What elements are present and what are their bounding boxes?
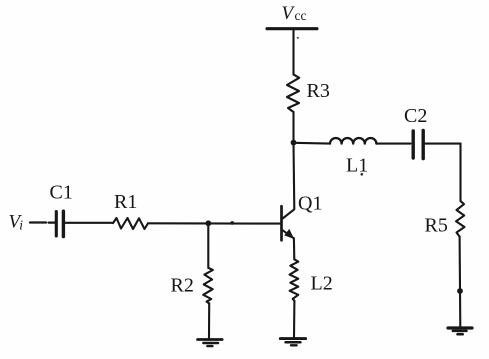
wire L1 to C2 xyxy=(376,143,410,145)
wire R5 to right ground xyxy=(459,237,462,327)
svg-text:R1: R1 xyxy=(114,191,137,213)
svg-text:i: i xyxy=(19,218,23,233)
wire junction down to R2 xyxy=(207,223,209,268)
label Vi xyxy=(9,212,24,233)
inductor L2 xyxy=(290,259,299,301)
wire collector node down to Q1 xyxy=(283,143,295,219)
wire C2 to right branch corner xyxy=(425,143,461,145)
label Vcc xyxy=(282,3,307,24)
svg-text:R5: R5 xyxy=(425,215,448,237)
capacitor C1 xyxy=(56,211,63,236)
ground left (under R2) xyxy=(198,340,223,347)
svg-text:Q1: Q1 xyxy=(298,193,322,215)
resistor R2 xyxy=(203,268,213,303)
svg-text:R3: R3 xyxy=(307,80,330,102)
node dot on right branch xyxy=(457,288,463,294)
node small dot on base wire xyxy=(230,221,234,225)
resistor R1 xyxy=(113,218,148,229)
ground middle (under L2) xyxy=(280,339,305,346)
svg-text:C1: C1 xyxy=(50,182,73,204)
input stub wire from Vi xyxy=(30,221,46,223)
svg-text:L1: L1 xyxy=(346,155,368,177)
resistor R3 xyxy=(287,75,299,113)
wire C1 to R1 xyxy=(65,222,113,224)
wire R2 to left ground xyxy=(208,303,210,338)
node base junction dot xyxy=(205,220,211,226)
wire Vcc bar to R3 top xyxy=(292,30,294,75)
wire right branch down to R5 xyxy=(459,144,461,201)
ground right xyxy=(448,328,472,334)
label L1 xyxy=(346,155,368,177)
capacitor C2 xyxy=(413,131,423,159)
svg-text:V: V xyxy=(282,3,296,24)
wire emitter down to L2 xyxy=(293,238,295,259)
svg-text:C2: C2 xyxy=(404,105,427,127)
wire R3 bottom to collector node xyxy=(292,112,294,143)
power rail Vcc bar xyxy=(267,27,317,30)
wire L2 to middle ground xyxy=(293,301,295,338)
svg-text:L2: L2 xyxy=(311,273,333,295)
svg-text:cc: cc xyxy=(295,8,307,23)
node collector junction dot xyxy=(291,140,297,146)
transistor Q1 emitter with arrow xyxy=(283,229,295,239)
wire lead into C1 xyxy=(49,221,55,223)
svg-text:R2: R2 xyxy=(171,275,194,297)
wire R1 to base junction and Q1 base xyxy=(148,222,281,224)
wire node to L1 xyxy=(294,142,331,145)
resistor R5 xyxy=(456,201,465,237)
inductor L1 xyxy=(330,138,376,144)
transistor Q1 base bar xyxy=(280,206,283,240)
